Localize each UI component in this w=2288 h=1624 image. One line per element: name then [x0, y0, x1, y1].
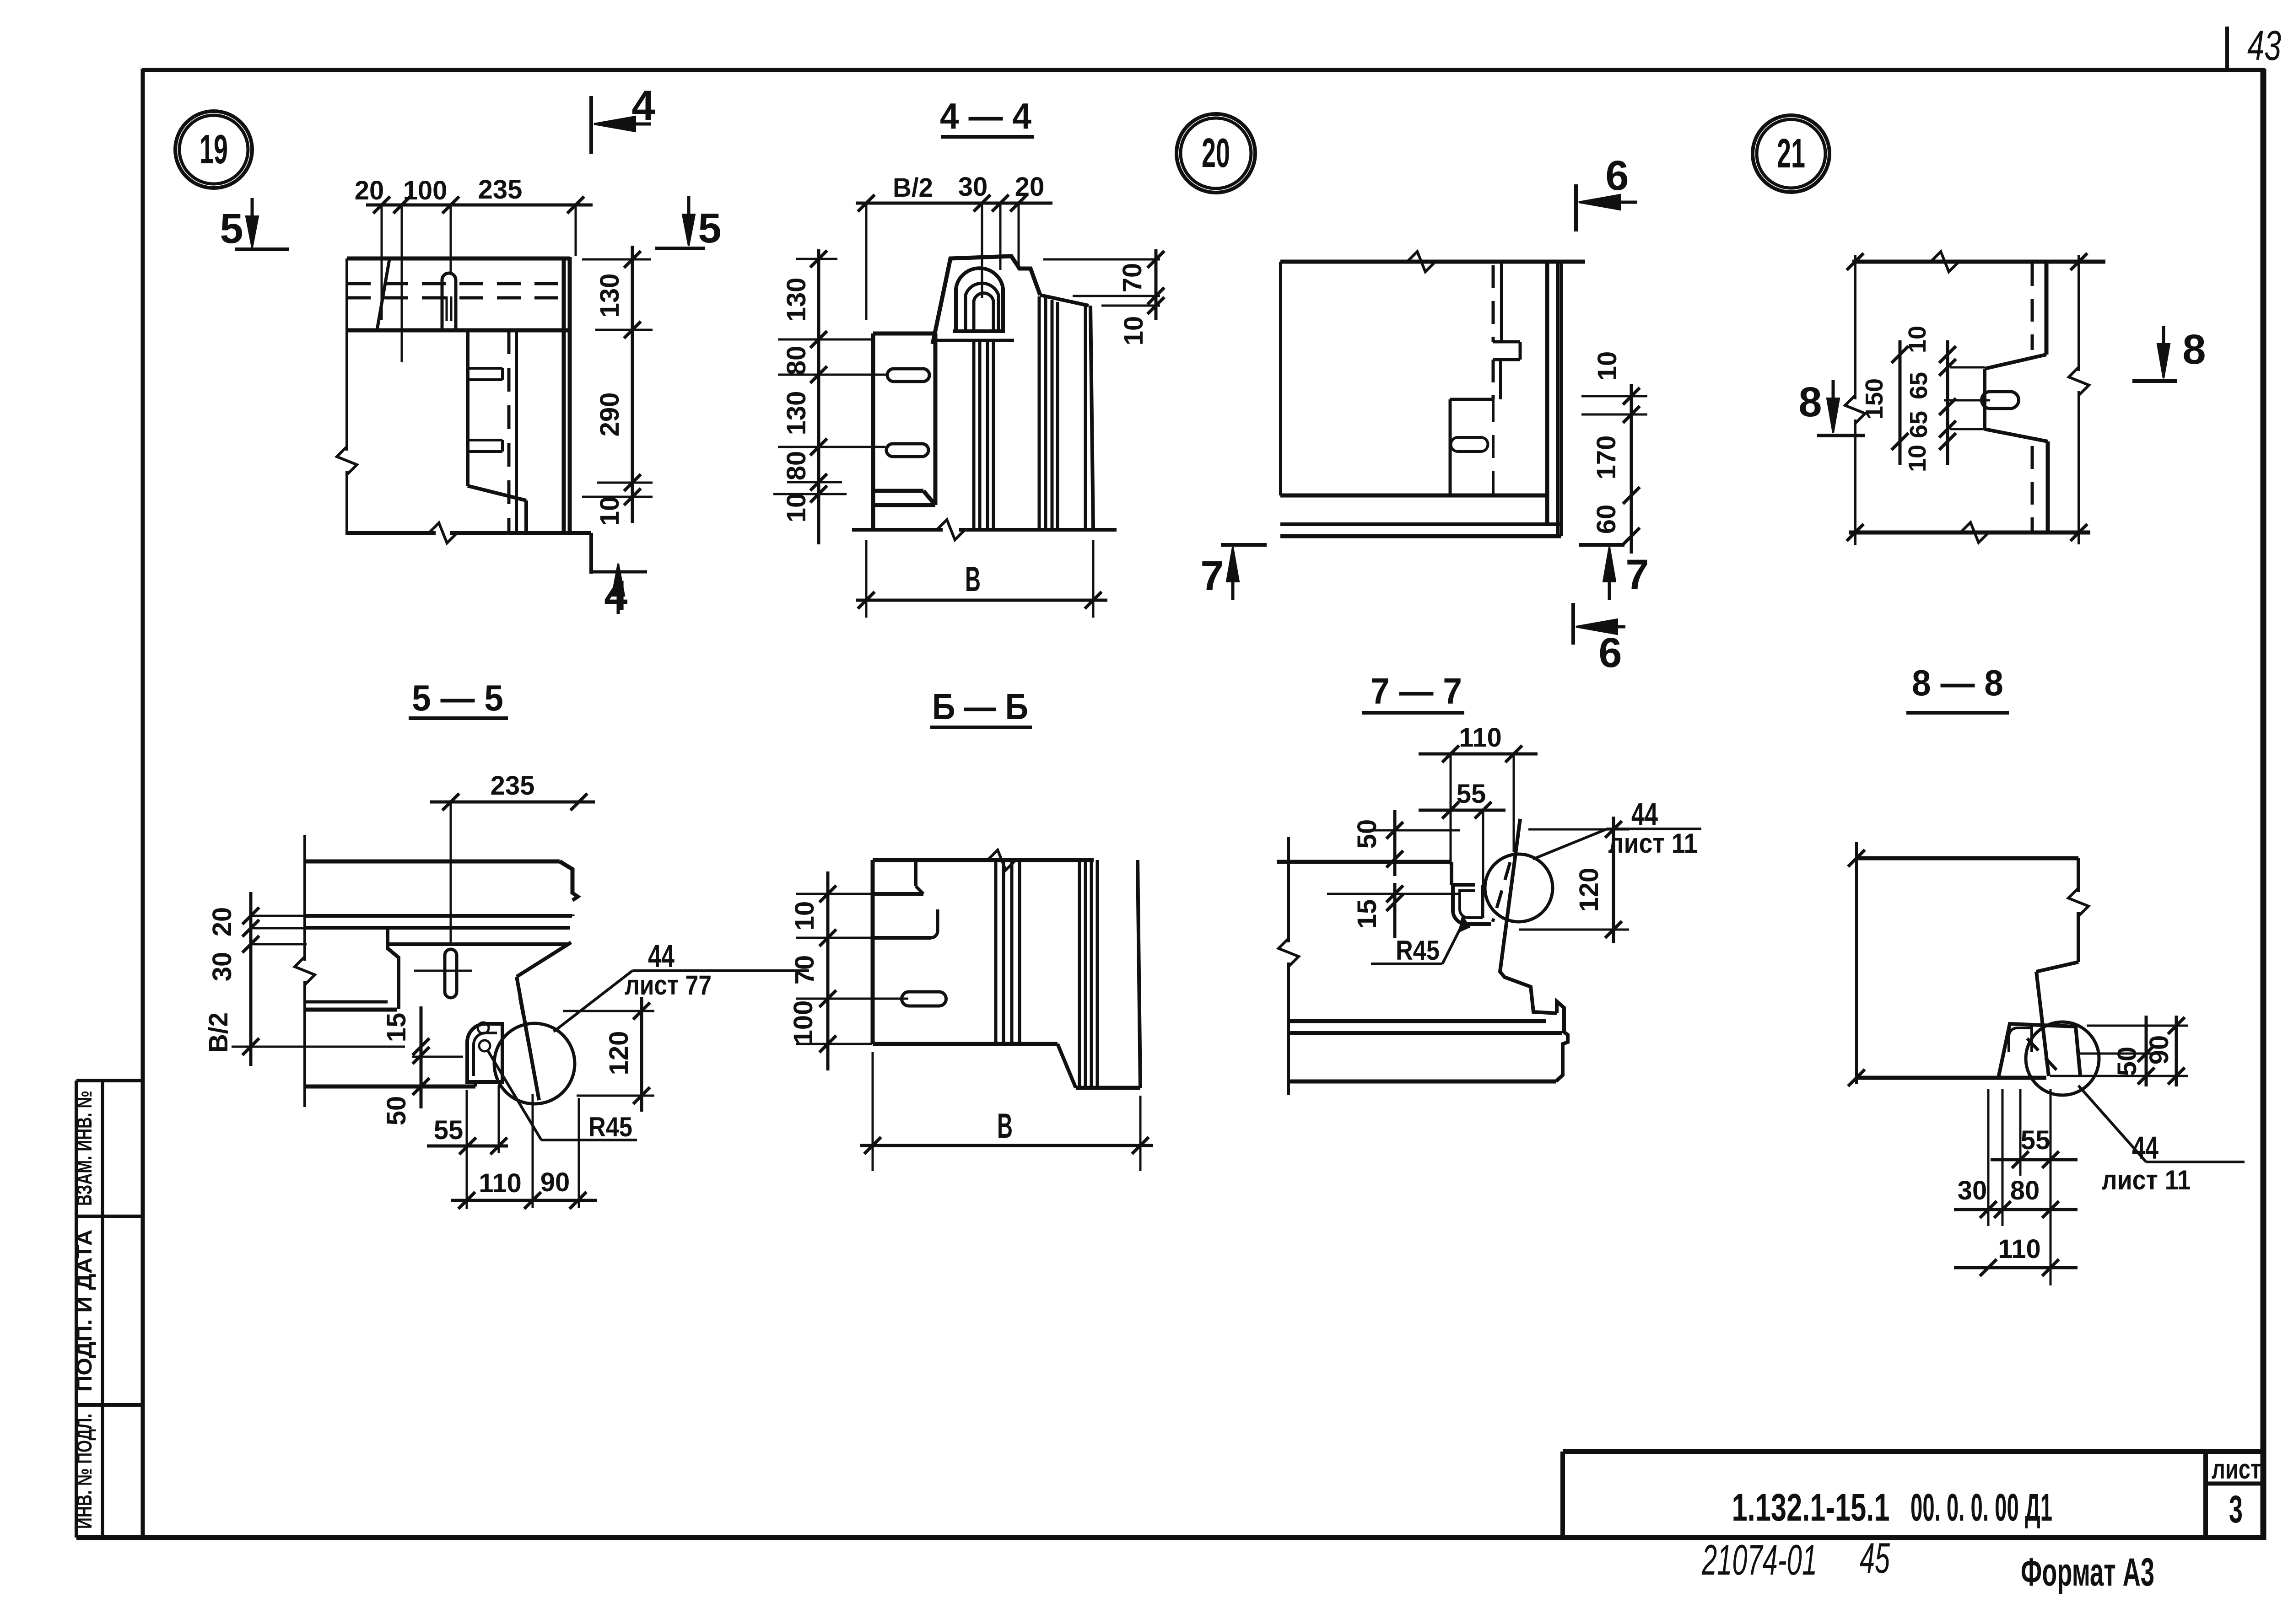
svg-text:60: 60 [1592, 505, 1621, 534]
svg-text:8 — 8: 8 — 8 [1912, 662, 2003, 703]
svg-text:4: 4 [631, 82, 655, 129]
svg-text:110: 110 [1459, 723, 1502, 753]
svg-text:110: 110 [479, 1168, 522, 1198]
svg-text:4: 4 [604, 572, 627, 619]
svg-text:15: 15 [1352, 899, 1382, 929]
svg-text:5 — 5: 5 — 5 [412, 678, 503, 718]
svg-text:44: 44 [1631, 796, 1658, 832]
svg-text:80: 80 [2010, 1176, 2040, 1205]
svg-text:7 — 7: 7 — 7 [1371, 671, 1462, 711]
svg-text:6: 6 [1598, 629, 1622, 676]
svg-text:15: 15 [382, 1013, 411, 1043]
svg-text:130: 130 [782, 278, 811, 322]
svg-text:21074-01: 21074-01 [1701, 1536, 1817, 1584]
svg-text:30: 30 [1958, 1176, 1987, 1205]
svg-text:20: 20 [1202, 130, 1230, 176]
svg-text:50: 50 [1352, 819, 1382, 849]
svg-text:55: 55 [2021, 1125, 2051, 1155]
svg-text:7: 7 [1200, 553, 1224, 599]
svg-text:ВЗАМ. ИНВ. №: ВЗАМ. ИНВ. № [72, 1091, 96, 1206]
svg-text:100: 100 [403, 176, 448, 205]
svg-text:290: 290 [595, 393, 625, 437]
svg-text:В: В [965, 560, 981, 599]
svg-text:00. 0. 0. 00 Д1: 00. 0. 0. 00 Д1 [1910, 1486, 2052, 1529]
svg-text:70: 70 [790, 955, 820, 985]
svg-text:3: 3 [2229, 1488, 2243, 1531]
svg-text:ПОДП. И ДАТА: ПОДП. И ДАТА [72, 1230, 96, 1392]
svg-text:10: 10 [595, 496, 625, 526]
svg-text:50: 50 [2112, 1047, 2142, 1076]
svg-text:лист: лист [2212, 1454, 2261, 1484]
svg-text:20: 20 [355, 176, 384, 205]
svg-text:20: 20 [1015, 172, 1045, 202]
svg-text:В/2: В/2 [204, 1012, 233, 1053]
svg-text:4 — 4: 4 — 4 [940, 96, 1031, 136]
svg-text:10: 10 [1592, 351, 1622, 381]
svg-text:7: 7 [1625, 551, 1649, 598]
svg-text:44: 44 [648, 938, 675, 974]
svg-text:235: 235 [491, 771, 535, 801]
svg-text:8: 8 [2182, 326, 2206, 373]
svg-text:21: 21 [1777, 131, 1805, 177]
svg-text:120: 120 [604, 1031, 634, 1075]
svg-text:лист 77: лист 77 [625, 970, 712, 1000]
svg-text:лист 11: лист 11 [2102, 1165, 2191, 1195]
svg-text:В: В [997, 1107, 1013, 1145]
svg-text:8: 8 [1798, 379, 1822, 425]
svg-text:120: 120 [1574, 868, 1604, 912]
svg-text:44: 44 [2132, 1130, 2158, 1166]
svg-text:235: 235 [478, 175, 523, 204]
svg-text:10: 10 [1119, 316, 1149, 346]
svg-text:80: 80 [782, 451, 811, 481]
svg-text:10: 10 [790, 901, 820, 931]
svg-text:R45: R45 [588, 1112, 632, 1142]
svg-text:43: 43 [2247, 22, 2281, 69]
svg-text:10: 10 [1904, 326, 1931, 353]
svg-text:Формат А3: Формат А3 [2021, 1550, 2154, 1594]
svg-text:130: 130 [595, 274, 625, 318]
svg-text:В/2: В/2 [893, 173, 933, 203]
svg-text:лист 11: лист 11 [1608, 828, 1698, 859]
svg-text:65: 65 [1905, 411, 1932, 438]
svg-text:170: 170 [1592, 436, 1621, 480]
svg-text:6: 6 [1605, 152, 1629, 199]
svg-text:80: 80 [782, 346, 811, 376]
svg-text:100: 100 [788, 1000, 818, 1045]
svg-text:65: 65 [1905, 372, 1932, 399]
svg-text:10: 10 [782, 493, 811, 523]
svg-text:19: 19 [200, 127, 228, 172]
svg-text:10: 10 [1904, 445, 1931, 472]
svg-text:130: 130 [782, 391, 811, 436]
svg-text:90: 90 [540, 1167, 570, 1197]
svg-text:20: 20 [207, 907, 237, 937]
svg-text:5: 5 [220, 205, 243, 252]
svg-text:55: 55 [434, 1115, 464, 1145]
svg-text:1.132.1-15.1: 1.132.1-15.1 [1732, 1486, 1890, 1529]
svg-text:30: 30 [958, 172, 988, 202]
svg-text:110: 110 [1998, 1234, 2041, 1264]
svg-text:ИНВ. № ПОДЛ.: ИНВ. № ПОДЛ. [72, 1414, 96, 1529]
svg-text:30: 30 [207, 952, 237, 982]
svg-text:5: 5 [698, 205, 721, 252]
svg-text:90: 90 [2144, 1035, 2174, 1065]
svg-text:Б — Б: Б — Б [932, 686, 1028, 727]
svg-text:45: 45 [1860, 1534, 1890, 1582]
svg-text:150: 150 [1861, 378, 1888, 419]
svg-text:R45: R45 [1396, 935, 1440, 966]
svg-text:70: 70 [1117, 263, 1147, 293]
svg-text:50: 50 [382, 1096, 411, 1126]
svg-text:55: 55 [1457, 779, 1486, 809]
